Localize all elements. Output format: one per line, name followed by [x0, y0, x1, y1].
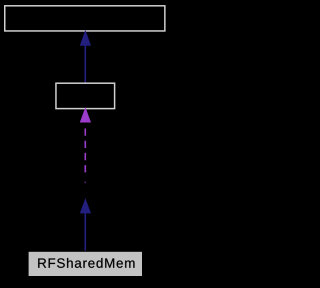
inheritance arrow: RFSharedMem to hidden node (solid navy shaft)	[84, 213, 86, 252]
node: middle intermediate-class box (empty, dark fill)	[56, 83, 115, 108]
node: top base-class box (empty, dark fill)	[5, 6, 165, 31]
usage arrow: faint truncated dash remnant	[84, 181, 86, 183]
usage arrow: dashed purple arrowhead into middle node	[81, 109, 91, 122]
node: RFSharedMem (current class, grey filled box)	[28, 251, 142, 276]
inheritance arrow: middle node to top node (solid navy shaft)	[84, 45, 86, 83]
inheritance arrow: RFSharedMem to hidden node (arrowhead)	[81, 200, 91, 213]
usage arrow: dashed purple shaft	[84, 129, 86, 173]
inheritance arrow: middle node to top node (arrowhead)	[81, 31, 91, 45]
label: RFSharedMem	[38, 258, 134, 268]
